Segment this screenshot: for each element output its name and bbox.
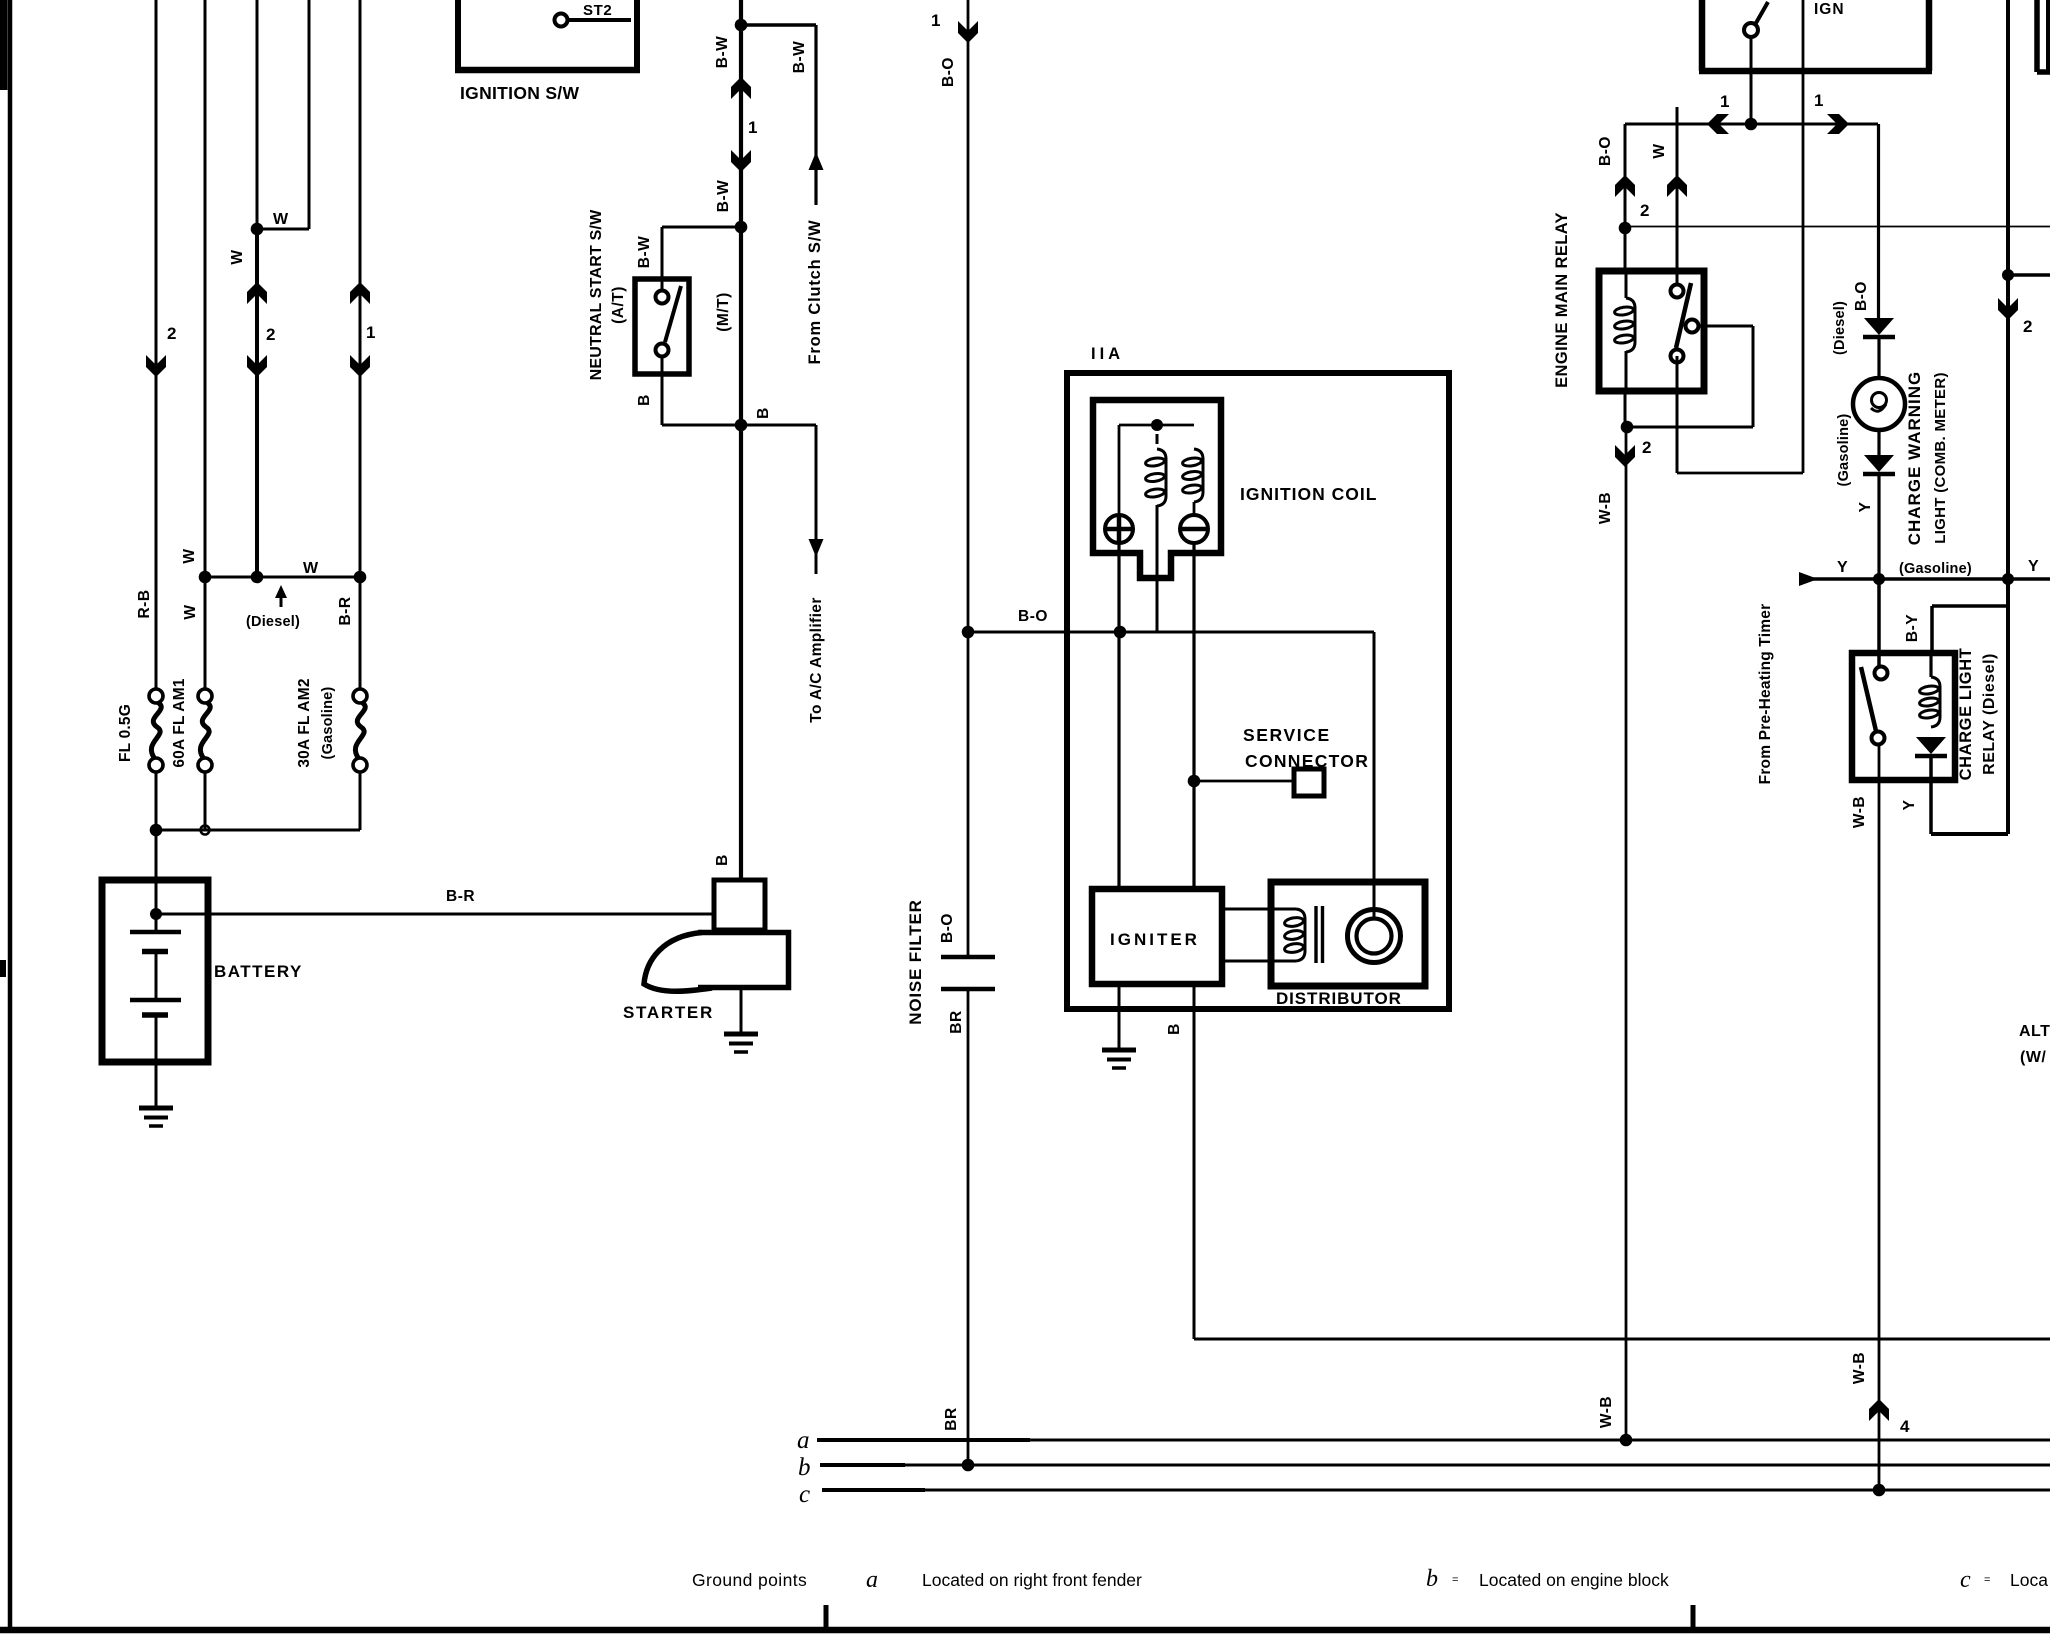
wire x=309 up from jog [308, 0, 311, 229]
wire BR down [967, 989, 970, 1465]
svg-text:(W/: (W/ [2020, 1049, 2046, 1066]
svg-text:Y: Y [2028, 558, 2039, 575]
ignition coil minus terminal [1180, 515, 1208, 543]
svg-text:W: W [273, 211, 289, 228]
svg-text:Located on engine block: Located on engine block [1479, 1570, 1669, 1590]
wire igniter-distributor lower [1222, 960, 1296, 963]
engine main relay box [1599, 271, 1704, 391]
junction dot B-W neutral tap [735, 221, 748, 234]
arrow pre-heating [1799, 572, 1818, 586]
wire secondary to distributor [1120, 631, 1374, 634]
svg-text:Ground points: Ground points [692, 1570, 807, 1590]
svg-text:SERVICE: SERVICE [1243, 725, 1331, 745]
wire battery to ground [155, 1017, 158, 1108]
IGN box [1699, 0, 1706, 71]
svg-text:B-Y: B-Y [1904, 614, 1921, 642]
junction dot (1627,427) [1621, 421, 1634, 434]
wire starter feed x=741 [739, 0, 743, 880]
wire W feeder x=257 [256, 0, 259, 229]
svg-text:IIA: IIA [1091, 345, 1124, 363]
wire service connector link [1194, 780, 1294, 783]
arrow up on x=257 [247, 282, 267, 304]
fuse 30A FL AM2 [353, 689, 367, 703]
arrow up W branch [1667, 175, 1687, 197]
ground igniter [1102, 1048, 1136, 1053]
svg-text:CHARGE LIGHT: CHARGE LIGHT [1957, 648, 1975, 781]
wire Y bus [1812, 577, 2050, 581]
svg-text:W: W [229, 249, 246, 264]
ignition coil box [1093, 400, 1221, 578]
svg-text:B-W: B-W [636, 236, 653, 269]
wire starter to ground [740, 990, 743, 1034]
wire A/C branch [741, 424, 816, 427]
svg-text:b: b [798, 1454, 811, 1481]
svg-text:1: 1 [1814, 91, 1824, 110]
ground bus a [817, 1439, 2050, 1442]
svg-text:W: W [181, 548, 198, 563]
wire B-R feeder x=360 [359, 0, 362, 689]
svg-text:(M/T): (M/T) [715, 292, 732, 332]
svg-text:Located on right front fender: Located on right front fender [922, 1570, 1142, 1590]
arrow down on R-B line [146, 355, 166, 377]
ignition coil dash [1156, 434, 1159, 444]
ignition coil primary winding [1157, 449, 1166, 459]
svg-text:=: = [1452, 1574, 1458, 1586]
svg-text:B-O: B-O [1597, 136, 1614, 166]
arrow left pin1 [1707, 114, 1729, 134]
EMR top contact [1671, 285, 1684, 298]
svg-text:B-O: B-O [939, 913, 956, 943]
CLR diode [1916, 737, 1946, 754]
EMR bottom contact [1671, 350, 1684, 363]
EMR blade [1676, 283, 1691, 348]
svg-text:B: B [714, 854, 731, 866]
arrow up on x=360 [350, 282, 370, 304]
distributor rotor [1348, 910, 1401, 963]
wire primary tap down [1156, 505, 1159, 632]
IGN contact [1744, 23, 1758, 37]
junction dot (1625,228) [1619, 222, 1632, 235]
wire Y to CLR [1877, 579, 1881, 667]
arrow up W-B bus [1869, 1399, 1889, 1421]
svg-text:2: 2 [1642, 438, 1652, 457]
svg-text:Y: Y [1857, 501, 1874, 512]
wire plus terminal drop [1118, 425, 1121, 515]
wire W-B down to bus a [1625, 427, 1628, 1440]
svg-text:a: a [866, 1567, 878, 1593]
svg-text:NEUTRAL START S/W: NEUTRAL START S/W [588, 209, 605, 380]
junction dot B-O at plus wire [1114, 626, 1127, 639]
wire EMR switch return [1676, 356, 1679, 473]
svg-text:B-W: B-W [791, 41, 808, 74]
arrow right pin1 [1827, 114, 1849, 134]
svg-text:B-O: B-O [940, 57, 957, 87]
svg-text:(Diesel): (Diesel) [1832, 301, 1848, 355]
ground bus b [820, 1464, 2050, 1467]
wire diode to bulb [1877, 339, 1880, 378]
junction dot service tap [1188, 775, 1201, 788]
junction ring (205,830) [201, 826, 210, 835]
wire igniter to ground [1118, 984, 1121, 1050]
svg-text:(Gasoline): (Gasoline) [1899, 561, 1972, 577]
svg-text:IGNITION S/W: IGNITION S/W [460, 83, 579, 103]
svg-text:CHARGE WARNING: CHARGE WARNING [1905, 371, 1924, 546]
svg-text:To A/C Amplifier: To A/C Amplifier [808, 597, 825, 723]
junction dot BR on bus b [962, 1459, 975, 1472]
noise filter capacitor [941, 955, 995, 960]
wire battery feed [155, 830, 158, 932]
ignition coil secondary winding [1194, 449, 1203, 459]
svg-text:c: c [799, 1481, 810, 1508]
wire junction bus y=830 [156, 829, 360, 832]
wire noise filter x=968 [967, 0, 970, 957]
svg-text:4: 4 [1900, 1417, 1910, 1436]
svg-text:Y: Y [1901, 799, 1918, 810]
ignition coil plus terminal [1105, 515, 1133, 543]
svg-text:LIGHT (COMB. METER): LIGHT (COMB. METER) [1932, 372, 1949, 544]
wire W-B from CLR switch [1878, 745, 1881, 1490]
wire B-Y jog [1932, 604, 2008, 608]
svg-text:BATTERY: BATTERY [214, 962, 303, 981]
svg-text:2: 2 [1640, 201, 1650, 220]
IIA assembly box [1067, 373, 1449, 1009]
svg-text:Y: Y [1837, 559, 1848, 576]
wire igniter-distributor upper [1222, 908, 1296, 911]
junction dot (205,577) [199, 571, 212, 584]
junction dot (156,830) [150, 824, 163, 837]
wire B-R to starter [156, 913, 714, 916]
arrow up clutch [809, 152, 824, 170]
fuse 60A FL AM1 [198, 689, 212, 703]
distributor pickup coil [1296, 909, 1305, 919]
wire W2 feeder (R-B line x=156) [155, 0, 158, 689]
svg-text:(Diesel): (Diesel) [246, 614, 300, 630]
wire W feeder x=205 [204, 0, 207, 689]
svg-text:W: W [1651, 143, 1668, 158]
distributor core bars [1314, 906, 1317, 963]
wire minus winding link [1193, 502, 1196, 515]
wire thin crossbus y=226 [1625, 226, 2050, 228]
junction dot clutch tap [735, 19, 748, 32]
battery BATTERY box [102, 880, 208, 1062]
neutral start switch box [635, 279, 689, 374]
svg-text:CONNECTOR: CONNECTOR [1245, 751, 1369, 771]
wire CLR L-return [1931, 832, 2008, 836]
svg-text:1: 1 [748, 118, 758, 137]
svg-text:2: 2 [167, 324, 177, 343]
ground starter [724, 1032, 758, 1037]
svg-text:W-B: W-B [1597, 492, 1614, 524]
svg-text:BR: BR [948, 1010, 965, 1033]
svg-text:1: 1 [366, 323, 376, 342]
ignition switch box [455, 0, 461, 70]
svg-text:(Gasoline): (Gasoline) [1836, 414, 1852, 487]
svg-text:60A FL AM1: 60A FL AM1 [171, 678, 188, 767]
wire stub y=275 [2008, 273, 2050, 277]
junction dot W jog [251, 223, 264, 236]
arrow up x=741 [731, 77, 751, 99]
svg-text:RELAY (Diesel): RELAY (Diesel) [1981, 653, 1998, 775]
EMR middle contact [1686, 320, 1699, 333]
svg-text:IGNITER: IGNITER [1110, 930, 1200, 949]
ground bus c [822, 1489, 2050, 1492]
svg-text:2: 2 [2023, 317, 2033, 336]
wire W bus y=577 [205, 576, 360, 579]
fuse FL 0.5G [149, 689, 163, 703]
ignition switch ST2 contact [555, 14, 568, 27]
wire NSS bottom [661, 356, 664, 425]
wire W jog horizontal [257, 228, 309, 231]
charge light relay box [1852, 653, 1955, 780]
wire x=1803 to top [1802, 0, 1805, 473]
svg-text:ENGINE MAIN RELAY: ENGINE MAIN RELAY [1553, 212, 1571, 388]
svg-text:ST2: ST2 [583, 2, 612, 19]
svg-text:B-R: B-R [337, 596, 354, 625]
junction dot (257,577) [251, 571, 264, 584]
wire clutch branch [741, 23, 816, 27]
svg-text:DISTRIBUTOR: DISTRIBUTOR [1276, 989, 1402, 1008]
svg-text:R-B: R-B [136, 589, 153, 618]
svg-text:B-W: B-W [715, 180, 732, 213]
svg-text:=: = [1984, 1574, 1990, 1586]
wire B-O branch x=1625 [1624, 124, 1627, 271]
wire plus to igniter [1117, 543, 1120, 889]
junction dot (2008,275) [2002, 269, 2014, 281]
arrow down on x=257 [247, 355, 267, 377]
svg-text:B-O: B-O [1018, 608, 1048, 625]
svg-text:B-W: B-W [714, 36, 731, 69]
ignition coil top link [1119, 424, 1194, 427]
junction dot IGN [1745, 118, 1758, 131]
wire diode2 to Y bus [1877, 476, 1880, 579]
CLR coil [1929, 653, 1932, 677]
junction dot coil top [1151, 419, 1163, 431]
junction dot Y right [2002, 573, 2014, 585]
engine main relay coil [1625, 271, 1628, 298]
igniter box [1092, 889, 1222, 984]
svg-text:B: B [755, 407, 772, 419]
wire bulb to diode2 [1877, 430, 1880, 455]
wire W branch x=1677 [1676, 107, 1679, 291]
svg-text:STARTER: STARTER [623, 1003, 714, 1022]
svg-text:1: 1 [1720, 92, 1730, 111]
svg-text:IGNITION COIL: IGNITION COIL [1240, 484, 1377, 504]
CLR blade [1861, 667, 1876, 731]
svg-text:2: 2 [266, 325, 276, 344]
junction dot (360,577) [354, 571, 367, 584]
svg-text:30A FL AM2: 30A FL AM2 [296, 678, 313, 767]
diode gasoline [1864, 455, 1894, 472]
NSS bottom contact [656, 344, 669, 357]
wire igniter B out [1193, 984, 1196, 1339]
junction dot W-B bus c [1873, 1484, 1886, 1497]
svg-text:Loca: Loca [2010, 1570, 2048, 1590]
wire EMR jog to W-B [1627, 426, 1753, 429]
diesel pointer arrow [275, 585, 287, 598]
svg-text:B: B [1166, 1023, 1183, 1035]
svg-text:b: b [1426, 1566, 1438, 1592]
svg-text:W-B: W-B [1598, 1396, 1615, 1428]
wire minus to igniter [1192, 543, 1195, 889]
wire EMR middle out [1699, 325, 1753, 328]
wire to neutral start switch [662, 226, 741, 229]
svg-text:W-B: W-B [1851, 796, 1868, 828]
wire EMR coil out [1624, 391, 1627, 427]
svg-text:FL 0.5G: FL 0.5G [117, 704, 134, 762]
wire B to alternator [1194, 1338, 2050, 1341]
charge warning bulb [1853, 378, 1905, 430]
svg-text:ALT: ALT [2019, 1023, 2050, 1040]
NSS blade [665, 286, 681, 342]
svg-text:(A/T): (A/T) [610, 286, 627, 324]
junction dot Y left [1873, 573, 1885, 585]
CLR top contact [1875, 667, 1888, 680]
wire CLR coil out [1929, 758, 1933, 834]
starter bell housing [644, 933, 712, 992]
svg-text:B-R: B-R [446, 888, 475, 905]
wire pin1 bus [1625, 123, 1878, 126]
wire B-O horizontal [968, 631, 1120, 634]
arrow up B-O [1615, 175, 1635, 197]
svg-text:B-O: B-O [1853, 281, 1870, 311]
svg-text:B: B [636, 394, 653, 406]
junction dot battery terminal [150, 908, 162, 920]
CLR bottom contact [1872, 732, 1885, 745]
starter solenoid box [714, 880, 765, 930]
svg-text:IGN: IGN [1814, 1, 1845, 18]
arrow down A/C [809, 539, 824, 557]
junction dot (968,632) [962, 626, 975, 639]
svg-text:W-B: W-B [1851, 1352, 1868, 1384]
svg-text:W: W [182, 604, 199, 619]
arrow down x=741 [731, 150, 751, 172]
junction dot W-B bus a [1620, 1434, 1633, 1447]
distributor box [1271, 882, 1425, 986]
arrow down noise [958, 21, 978, 43]
svg-text:NOISE FILTER: NOISE FILTER [906, 899, 925, 1024]
diode diesel [1864, 318, 1894, 335]
svg-text:c: c [1960, 1567, 1971, 1593]
svg-text:From Clutch S/W: From Clutch S/W [806, 220, 824, 365]
NSS top contact [656, 291, 669, 304]
arrow down W-B [1615, 445, 1635, 467]
wire IGN out [1750, 37, 1753, 124]
junction dot (741,425) [735, 419, 748, 432]
ground battery [139, 1106, 173, 1111]
arrow down x=2008 [1998, 298, 2018, 320]
service connector box [1294, 769, 1324, 796]
wire feeder x=2008 [2006, 0, 2010, 834]
svg-text:W: W [303, 560, 319, 577]
svg-text:(Gasoline): (Gasoline) [320, 687, 336, 760]
battery cell plates [130, 930, 181, 935]
wire charge light branch [1877, 124, 1880, 318]
svg-text:From Pre-Heating Timer: From Pre-Heating Timer [1757, 604, 1774, 785]
svg-text:a: a [797, 1427, 810, 1454]
svg-text:1: 1 [931, 11, 941, 30]
starter body box [698, 933, 789, 988]
arrow down on x=360 [350, 355, 370, 377]
svg-text:BR: BR [943, 1407, 960, 1430]
